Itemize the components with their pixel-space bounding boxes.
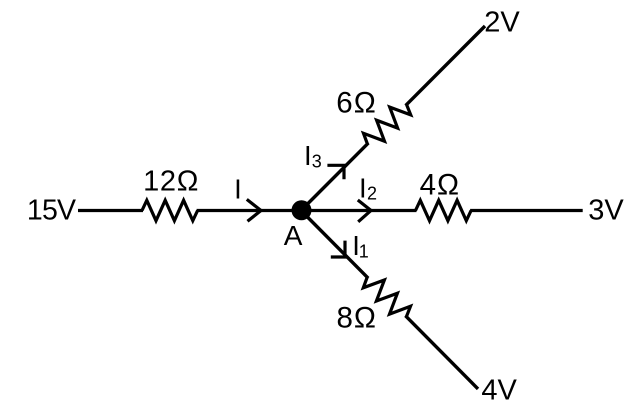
svg-text:3V: 3V	[588, 195, 624, 227]
svg-text:3: 3	[312, 151, 322, 171]
current arrow I1 (corner barbs)	[331, 241, 345, 257]
svg-text:A: A	[284, 220, 303, 251]
wire from 15V to resistor 12Ω	[78, 209, 143, 212]
wire from node A to resistor 4Ω	[301, 209, 417, 212]
svg-text:4Ω: 4Ω	[420, 169, 460, 202]
resistor R 4Ω zigzag	[416, 200, 472, 220]
svg-text:4V: 4V	[481, 374, 517, 406]
svg-text:1: 1	[359, 241, 369, 261]
current arrow I2 (chevron)	[358, 200, 371, 222]
svg-text:I: I	[234, 174, 242, 205]
resistor R 6Ω zigzag (diagonal)	[364, 105, 411, 144]
svg-text:15V: 15V	[27, 195, 76, 227]
wire from resistor 12Ω to node A	[197, 209, 301, 212]
current arrow I (chevron)	[247, 199, 261, 221]
svg-text:I: I	[359, 172, 367, 203]
svg-text:I: I	[304, 140, 312, 171]
svg-text:6Ω: 6Ω	[336, 86, 376, 119]
svg-text:8Ω: 8Ω	[337, 301, 377, 334]
wire resistor 6Ω to 2V	[406, 26, 485, 106]
svg-text:2V: 2V	[484, 7, 520, 39]
wire node A to resistor 8Ω (lower diagonal)	[301, 211, 368, 279]
current arrow I3 (corner barbs)	[327, 165, 344, 179]
node A (junction dot)	[292, 200, 312, 220]
wire resistor 8Ω to 4V	[405, 316, 478, 389]
wire from resistor 4Ω to 3V	[470, 209, 583, 212]
svg-text:12Ω: 12Ω	[143, 166, 199, 198]
wire node A to resistor 6Ω (upper diagonal)	[301, 143, 368, 211]
resistor R 12Ω zigzag	[142, 200, 198, 220]
svg-text:2: 2	[367, 184, 377, 204]
resistor R 8Ω zigzag (diagonal)	[363, 277, 410, 317]
